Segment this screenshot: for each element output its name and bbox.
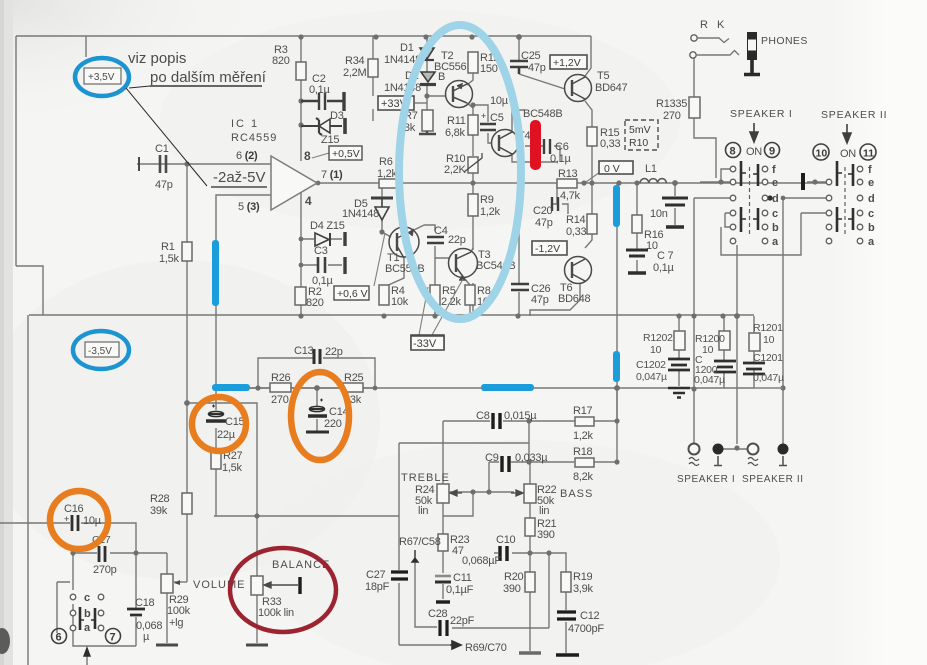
wire C1 node down through R1	[186, 164, 188, 403]
svg-text:0,047µ: 0,047µ	[694, 374, 725, 386]
wire input line C1 to op-amp	[137, 163, 271, 165]
op-amp U1 IC1	[231, 118, 343, 213]
capacitor C11	[435, 576, 451, 582]
svg-text:a: a	[772, 236, 779, 248]
capacitor C20	[552, 197, 558, 211]
wire C13 loop	[258, 358, 375, 388]
terminal speaker II hot	[748, 444, 759, 455]
wire speaker I feed stubs	[694, 169, 730, 198]
svg-text:R6: R6	[379, 156, 393, 168]
wire R26 R25 on y388 gaps	[249, 387, 375, 389]
svg-text:C8: C8	[476, 410, 490, 422]
svg-text:R67/C58: R67/C58	[399, 536, 441, 548]
wire D4 C3 rows	[301, 239, 342, 265]
svg-text:47p: 47p	[531, 294, 549, 306]
svg-text:270: 270	[663, 110, 681, 122]
svg-text:ON: ON	[840, 148, 856, 160]
wire T2 collector chain R12 R11 R10 R9	[467, 73, 473, 316]
svg-text:10: 10	[650, 344, 662, 356]
wire volume wiper arrow	[174, 581, 187, 583]
annotation leader line	[126, 86, 207, 186]
svg-text:BASS: BASS	[560, 488, 593, 500]
annotation cyan bar vertical x617 upper	[613, 185, 620, 227]
wire C8 line y421	[443, 420, 617, 422]
svg-text:8,2k: 8,2k	[573, 471, 594, 483]
resistor R3	[296, 62, 306, 80]
svg-text:R13: R13	[558, 168, 578, 180]
wire pin4 column to D4/C3/R2	[300, 192, 302, 316]
svg-text:3,9k: 3,9k	[573, 583, 594, 595]
wire R16 C7 branch	[636, 183, 638, 273]
transistor T5	[565, 75, 592, 102]
potentiometer R33 balance	[251, 576, 263, 595]
wire T4 connections	[512, 110, 557, 162]
wire lower channel line y388	[216, 387, 783, 389]
svg-text:R14: R14	[566, 214, 586, 226]
svg-text:D3: D3	[330, 110, 344, 122]
capacitor C3	[318, 257, 345, 274]
resistor R5	[430, 285, 440, 305]
svg-text:270: 270	[271, 394, 289, 406]
svg-text:47: 47	[452, 545, 464, 557]
wire zobel tops	[679, 316, 754, 333]
svg-text:820: 820	[306, 297, 324, 309]
svg-text:c: c	[84, 592, 90, 604]
diode D4	[315, 232, 345, 246]
resistor R1202	[674, 331, 685, 350]
ground under R29	[156, 644, 178, 647]
wire R27 chain x216	[215, 388, 217, 516]
resistor R2	[295, 287, 306, 305]
resistor R12	[468, 52, 478, 73]
resistor R14	[587, 214, 597, 234]
voltage box -33V lower	[411, 336, 444, 350]
svg-text:22pF: 22pF	[450, 615, 475, 627]
svg-text:2,2k: 2,2k	[441, 296, 462, 308]
svg-text:7 (1): 7 (1)	[321, 169, 343, 181]
svg-text:C10: C10	[496, 534, 516, 546]
svg-text:C11: C11	[453, 572, 472, 584]
svg-text:SPEAKER II: SPEAKER II	[742, 474, 804, 485]
svg-text:7: 7	[110, 632, 116, 644]
svg-text:BC548B: BC548B	[523, 108, 562, 120]
wire speaker II feed	[783, 198, 826, 445]
wire R28 node link y403	[187, 403, 257, 516]
diode D5	[371, 198, 393, 220]
resistor R20	[525, 572, 535, 592]
capacitor C8	[493, 413, 500, 429]
svg-text:SPEAKER II: SPEAKER II	[821, 109, 887, 121]
wire op-amp lower input to x216	[216, 195, 271, 388]
wire T6 column R14	[585, 183, 592, 248]
voltage box 0V	[586, 161, 633, 182]
wire speaker I d-contact down to terminal	[693, 198, 695, 445]
resistor R27	[211, 451, 221, 469]
wire T3 leads	[435, 248, 473, 285]
wire -33V rail	[29, 314, 754, 316]
wire R67/C58 arrow elbow	[415, 558, 437, 627]
svg-text:47p: 47p	[155, 179, 173, 191]
svg-text:po dalším měření: po dalším měření	[150, 69, 267, 86]
capacitor C4	[427, 237, 444, 243]
wire treble corner x399	[398, 443, 400, 516]
svg-text:lin: lin	[539, 505, 549, 517]
svg-text:-2až-5V: -2až-5V	[213, 169, 266, 186]
svg-text:VOLUME: VOLUME	[193, 579, 245, 591]
svg-text:1,2k: 1,2k	[377, 168, 398, 180]
wire main node verticals x617	[616, 183, 618, 421]
wire C25 column	[518, 36, 520, 74]
svg-text:0,047µ: 0,047µ	[636, 371, 667, 383]
svg-text:0,015µ: 0,015µ	[504, 410, 537, 422]
diode D1	[420, 48, 434, 60]
svg-text:150: 150	[480, 63, 498, 75]
transistor T2	[446, 81, 473, 108]
wire y628 line	[452, 627, 549, 629]
svg-text:1,5k: 1,5k	[222, 462, 243, 474]
wire D5 hang	[382, 186, 391, 237]
annotation red marker bar	[530, 120, 541, 170]
svg-text:100k lin: 100k lin	[258, 607, 294, 619]
svg-text:+: +	[481, 111, 486, 121]
svg-text:0,33: 0,33	[566, 226, 587, 238]
svg-text:22µ: 22µ	[217, 429, 236, 441]
svg-text:8: 8	[304, 149, 311, 163]
svg-text:4: 4	[305, 194, 312, 208]
wire top line corner to T5 collector	[585, 36, 591, 76]
resistor R1201	[749, 333, 760, 351]
wire tone feed y516	[214, 515, 399, 517]
measure box 5mV R10	[625, 120, 658, 150]
svg-text:e: e	[868, 177, 874, 189]
resistor R9	[468, 194, 478, 216]
wire R34 column	[372, 36, 374, 121]
svg-text:C15: C15	[225, 416, 245, 428]
svg-text:R9: R9	[480, 194, 494, 206]
wire zobel bottoms	[679, 370, 754, 388]
resistor R1335	[689, 97, 700, 118]
svg-text:+lg: +lg	[169, 617, 183, 629]
wire C18 column	[135, 553, 137, 646]
svg-text:R69/C70: R69/C70	[465, 642, 507, 654]
wire C17 line y553	[73, 552, 167, 554]
svg-text:D4 Z15: D4 Z15	[310, 220, 345, 232]
svg-text:Z15: Z15	[321, 134, 339, 146]
switch speaker I contacts	[730, 166, 768, 244]
resistor R7	[422, 110, 433, 131]
node 7 circled	[106, 629, 121, 644]
wire terminals crossbar I	[723, 448, 749, 450]
capacitor C25	[510, 61, 528, 74]
svg-text:R20: R20	[504, 571, 524, 583]
svg-text:e: e	[772, 177, 778, 189]
svg-text:+3,5V: +3,5V	[88, 72, 115, 83]
annotation blue ellipse -3,5V	[73, 331, 129, 369]
svg-text:f: f	[772, 164, 776, 176]
wire T1 leads	[384, 225, 449, 287]
resistor R11	[468, 115, 478, 135]
capacitor C27	[391, 572, 408, 579]
svg-text:C20: C20	[533, 205, 553, 217]
capacitor C14 electrolytic	[306, 399, 329, 433]
node 9 circled	[765, 143, 780, 158]
wire C25 to T5 base diagonal	[519, 74, 565, 89]
svg-text:10n: 10n	[650, 208, 668, 220]
svg-text:C1202: C1202	[636, 359, 666, 371]
svg-text:a: a	[868, 236, 875, 248]
resistor R19	[561, 572, 571, 592]
resistor R28	[182, 493, 192, 514]
wire speaker I a-node down	[736, 245, 738, 444]
wire left vertical from rail	[27, 315, 29, 665]
svg-text:0,1µ: 0,1µ	[653, 262, 675, 274]
svg-text:R1201: R1201	[753, 322, 783, 334]
svg-text:0,1µ: 0,1µ	[550, 153, 572, 165]
resistor R25	[343, 383, 363, 392]
svg-text:18pF: 18pF	[365, 581, 390, 593]
capacitor C13	[314, 349, 320, 364]
wire pin8 column R3	[300, 36, 302, 161]
svg-text:-3,5V: -3,5V	[88, 346, 112, 357]
svg-text:6: 6	[56, 632, 62, 644]
svg-text:d: d	[868, 193, 875, 205]
wire C26 branch	[518, 183, 520, 316]
wire R23 C11 column	[442, 516, 444, 599]
wire C9 line y462	[489, 461, 617, 463]
svg-text:10µ: 10µ	[490, 95, 509, 107]
wire volume pot top	[166, 553, 168, 574]
switch 6/7 contacts	[70, 594, 104, 631]
switch speaker II contacts	[826, 166, 863, 244]
svg-text:1,2k: 1,2k	[573, 430, 594, 442]
svg-text:d: d	[772, 193, 779, 205]
svg-text:47p: 47p	[535, 217, 553, 229]
wire y443 under C8	[399, 442, 529, 444]
svg-text:+0,6 V: +0,6 V	[337, 288, 368, 300]
svg-text:R1335: R1335	[656, 98, 687, 110]
svg-text:11: 11	[863, 148, 874, 160]
wire 10n branch	[674, 183, 676, 225]
wire C16 line y523	[0, 523, 136, 553]
svg-text:C1201: C1201	[753, 352, 783, 364]
svg-text:R1202: R1202	[643, 332, 673, 344]
resistor R15	[587, 127, 597, 146]
svg-text:390: 390	[537, 529, 555, 541]
wire treble pot bottom loop	[443, 492, 473, 516]
svg-text:0,1µ: 0,1µ	[309, 84, 331, 96]
wire left border vertical	[15, 36, 17, 266]
svg-text:6,8k: 6,8k	[445, 127, 466, 139]
arrow R69/C70	[450, 641, 461, 649]
transistor T6	[565, 257, 592, 284]
svg-text:R K: R K	[700, 19, 727, 31]
voltage box -1,2V	[532, 241, 567, 255]
wire +33V box to D2 node	[415, 102, 427, 104]
svg-text:ON: ON	[746, 146, 762, 158]
transistor T4	[492, 130, 519, 157]
node 8 circled	[726, 143, 741, 158]
wire C28 to C10 node riser	[548, 553, 550, 628]
wire speaker II c-row loop	[721, 213, 826, 255]
wire R5 R8 bottoms	[435, 305, 470, 316]
svg-text:R17: R17	[573, 405, 593, 417]
svg-text:8: 8	[730, 146, 736, 158]
wire speaker I c/b loop	[725, 213, 730, 227]
ground below C1202	[668, 388, 690, 398]
annotation cyan bar horizontal mid	[481, 384, 534, 391]
resistor R17	[575, 417, 594, 426]
wire left jog to rail	[16, 266, 43, 315]
wire switch6 outline	[57, 553, 136, 665]
wire R19 C12 column	[565, 592, 567, 653]
svg-text:390: 390	[503, 583, 521, 595]
svg-text:5 (3): 5 (3)	[238, 201, 260, 213]
wire T6 collector down	[530, 283, 580, 316]
inductor L1	[640, 179, 666, 183]
svg-text:b: b	[772, 222, 779, 234]
voltage box +33V	[378, 96, 414, 110]
node 11 circled	[860, 144, 876, 160]
svg-text:C12: C12	[580, 610, 600, 622]
svg-text:BD648: BD648	[558, 293, 591, 305]
diode D2	[420, 72, 436, 85]
svg-text:C4: C4	[434, 225, 448, 237]
svg-text:T5: T5	[597, 70, 609, 82]
svg-text:9: 9	[769, 146, 775, 158]
wire speaker II common bar line	[807, 181, 826, 183]
svg-text:f: f	[868, 164, 872, 176]
svg-text:B: B	[438, 71, 445, 83]
svg-text:270p: 270p	[93, 564, 117, 576]
svg-text:0,33: 0,33	[600, 138, 621, 150]
wire phones contacts	[697, 38, 739, 55]
capacitor C5	[480, 124, 496, 130]
svg-text:SPEAKER I: SPEAKER I	[730, 108, 793, 120]
svg-text:PHONES: PHONES	[761, 35, 808, 47]
svg-text:10: 10	[702, 344, 714, 356]
ground under R33	[246, 644, 268, 647]
potentiometer R24	[437, 484, 449, 503]
svg-text:0,033µ: 0,033µ	[515, 452, 548, 464]
svg-text:BD647: BD647	[595, 82, 628, 94]
wire top border	[16, 35, 591, 37]
annotation cyan bar vertical left	[212, 240, 219, 306]
svg-text:R19: R19	[573, 571, 593, 583]
resistor R1200	[719, 331, 730, 350]
svg-text:10: 10	[816, 148, 828, 160]
wire C27 column	[398, 516, 400, 645]
phones jack	[744, 32, 760, 75]
resistor R16	[632, 215, 642, 233]
wire R22 chain	[529, 462, 531, 553]
resistor R6	[379, 179, 398, 188]
capacitor C1	[139, 155, 166, 173]
wire phones switch column R1335	[694, 58, 716, 178]
svg-text:c: c	[772, 208, 778, 220]
capacitor C1200	[714, 361, 736, 372]
potentiometer R29 volume	[161, 574, 173, 593]
svg-text:10: 10	[763, 334, 775, 346]
capacitor C10	[500, 546, 507, 561]
capacitor C1201	[743, 363, 765, 374]
svg-text:R25: R25	[344, 372, 364, 384]
svg-text:820: 820	[272, 55, 290, 67]
svg-text:-1,2V: -1,2V	[535, 243, 560, 255]
transistor T1	[389, 227, 419, 258]
svg-text:10µ: 10µ	[83, 515, 102, 527]
wire volume pot bottom	[166, 593, 168, 643]
wire C9 left corner to wiper	[488, 462, 490, 492]
svg-text:L1: L1	[645, 163, 657, 175]
svg-text:C5: C5	[490, 112, 504, 124]
resistor R13	[557, 179, 577, 188]
annotation orange circle C16	[50, 491, 108, 549]
capacitor C6	[544, 139, 550, 154]
svg-text:b: b	[868, 222, 875, 234]
svg-text:5mV: 5mV	[629, 124, 651, 136]
resistor R34	[368, 59, 378, 77]
annotation dark red ellipse balance	[230, 548, 336, 632]
svg-text:b: b	[84, 608, 91, 620]
svg-text:R18: R18	[573, 446, 593, 458]
voltage box +0,6V	[374, 233, 385, 286]
capacitor C26	[511, 284, 529, 290]
wire C1201 bottom link	[754, 387, 783, 389]
svg-text:C9: C9	[485, 452, 499, 464]
wire T5 emitter R15	[585, 101, 592, 183]
wire zobel R to C	[679, 349, 754, 362]
node 10 circled	[813, 144, 829, 160]
capacitor C9	[502, 456, 509, 472]
wire x617 lower	[616, 388, 618, 462]
wire C8 left corner down	[442, 421, 444, 484]
svg-text:+1,2V: +1,2V	[553, 57, 581, 69]
capacitor 10n	[662, 198, 688, 227]
speaker II feed bar	[801, 173, 805, 190]
svg-text:2,2M: 2,2M	[343, 67, 367, 79]
svg-text:0,068µF: 0,068µF	[462, 555, 501, 567]
resistor R26	[270, 383, 291, 392]
ground under R20	[519, 651, 541, 654]
trimmer R10	[468, 157, 478, 173]
capacitor C18	[127, 609, 145, 615]
svg-text:0 V: 0 V	[604, 163, 620, 175]
svg-text:R1: R1	[161, 241, 175, 253]
svg-text:47p: 47p	[528, 62, 546, 74]
capacitor C15 electrolytic	[206, 405, 226, 422]
svg-text:D1: D1	[400, 42, 414, 54]
svg-text:1N4148: 1N4148	[342, 208, 379, 220]
annotation big cyan ellipse	[399, 25, 521, 319]
voltage box +1,2V	[550, 55, 587, 69]
wire R28 column	[186, 403, 188, 582]
capacitor C28	[440, 620, 447, 636]
wire treble wiper line y492	[448, 491, 514, 493]
svg-text:1,2k: 1,2k	[480, 206, 501, 218]
wire C5 branch	[473, 105, 492, 143]
svg-text:C25: C25	[521, 50, 541, 62]
wire C20 branch	[551, 183, 568, 214]
svg-text:+0,5V: +0,5V	[332, 148, 360, 160]
svg-text:10k: 10k	[391, 296, 409, 308]
svg-text:22p: 22p	[448, 234, 466, 246]
svg-text:SPEAKER I: SPEAKER I	[677, 474, 735, 485]
voltage box -33V upper	[411, 279, 463, 349]
annotation blue ellipse +3.5V	[75, 58, 129, 96]
resistor R8	[465, 285, 475, 305]
wire T2 base	[427, 95, 446, 97]
annotation cyan bar horizontal mid-left	[212, 384, 250, 391]
